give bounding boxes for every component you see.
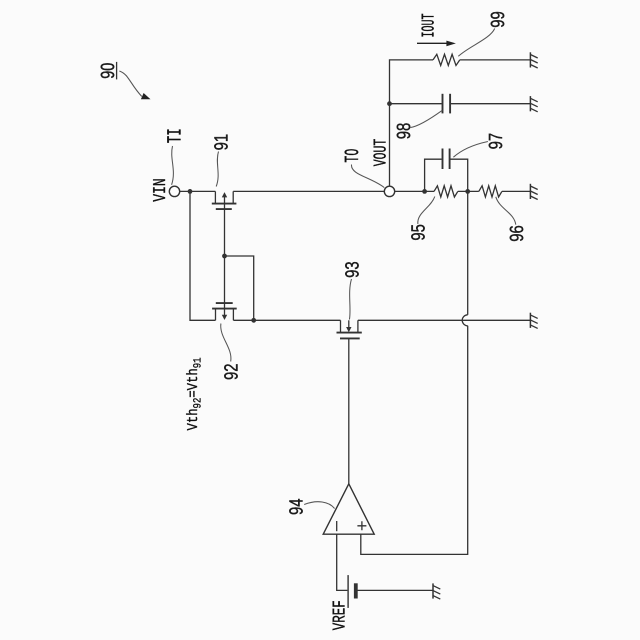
svg-text:95: 95 xyxy=(408,224,429,241)
battery VREF xyxy=(348,575,433,608)
svg-text:98: 98 xyxy=(394,123,415,140)
node C98 tap xyxy=(387,101,392,106)
arrow from label 90 xyxy=(119,71,150,99)
wire left branch down from VIN node xyxy=(190,191,216,320)
terminal TI (input) xyxy=(169,186,179,196)
capacitor C98 xyxy=(387,94,530,114)
svg-text:VIN: VIN xyxy=(151,178,171,202)
op-amp U94 xyxy=(323,484,374,591)
label 93 xyxy=(342,261,363,319)
svg-text:IOUT: IOUT xyxy=(420,13,440,37)
terminal TO (output) xyxy=(384,186,394,196)
node VIN node xyxy=(188,189,193,194)
svg-text:93: 93 xyxy=(342,261,363,278)
label 94 xyxy=(286,498,334,515)
label 99 xyxy=(458,11,509,56)
ground (R96) xyxy=(530,184,537,200)
wire VOUT up-branch xyxy=(390,60,434,186)
svg-text:VREF: VREF xyxy=(330,600,350,630)
IOUT arrow xyxy=(417,41,456,47)
wire bottom rail Q93 to ground xyxy=(358,319,531,321)
resistor R95 xyxy=(434,186,458,197)
svg-text:99: 99 xyxy=(488,11,509,28)
wire gate node to rail xyxy=(225,256,254,320)
wire TO to R95 xyxy=(395,190,434,192)
svg-text:96: 96 xyxy=(507,225,528,242)
transistor Q93 (NMOS) xyxy=(337,320,362,484)
node R95 left xyxy=(422,189,427,194)
minus input mark xyxy=(336,521,338,531)
resistor R96 xyxy=(479,186,502,197)
label 91 xyxy=(212,134,233,187)
label 95 xyxy=(408,197,434,241)
transistor Q91 (PMOS pass transistor) xyxy=(212,191,237,256)
inverting input lead xyxy=(337,534,348,590)
svg-text:91: 91 xyxy=(212,134,233,151)
label TO xyxy=(342,149,384,188)
ground (C98) xyxy=(530,96,537,112)
svg-text:94: 94 xyxy=(286,498,307,515)
label 92 xyxy=(221,324,243,380)
svg-text:TO: TO xyxy=(342,149,365,163)
plus input mark xyxy=(357,521,366,530)
ground (VREF) xyxy=(433,583,440,599)
figure reference numeral 90 xyxy=(98,62,119,80)
label 98 xyxy=(394,110,442,139)
node R95 right xyxy=(465,189,470,194)
wire top rail t91 to VOUT xyxy=(233,190,384,192)
node gate node xyxy=(222,254,227,259)
node rail junction xyxy=(251,318,256,323)
feedback wire with hop over bottom rail xyxy=(361,191,468,554)
svg-text:VOUT: VOUT xyxy=(372,139,392,167)
wire VIN to node xyxy=(180,190,216,192)
transistor Q92 (diode-connected PMOS) xyxy=(212,256,237,320)
resistor R99 xyxy=(433,54,460,65)
svg-text:TI: TI xyxy=(165,128,188,143)
label 97 xyxy=(453,133,507,157)
label 96 xyxy=(496,197,528,242)
wire bottom rail Q92 to Q93 xyxy=(233,319,340,321)
ground (R99) xyxy=(530,52,537,68)
capacitor C97 (feedforward) xyxy=(425,149,468,192)
svg-text:92: 92 xyxy=(222,363,243,380)
ground (bottom rail) xyxy=(530,313,537,329)
svg-text:97: 97 xyxy=(486,133,507,150)
label TI xyxy=(165,128,188,185)
